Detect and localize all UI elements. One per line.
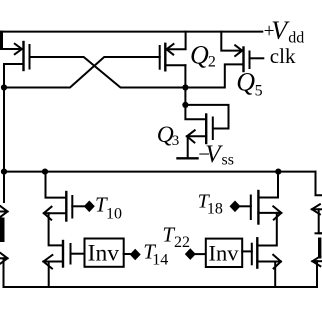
node mid T10 feed (45,171) [42,169,48,175]
node Y (185.4,104.9) [182,102,188,108]
channel [256,238,258,267]
svg-text:2: 2 [208,54,216,71]
wire cross-couple B (left node to Q2 gate) [4,57,160,88]
wire source drop [319,209,322,233]
Q3 gate bar [212,118,214,140]
diamond T18 [230,201,241,213]
wire down to bottom rail [3,258,5,287]
svg-text:5: 5 [255,82,263,99]
Q5 gate lead to clk [250,57,264,59]
wire source down to bottom rail [274,262,276,288]
M1 channel [22,42,24,70]
wire Inv to diamond [124,253,130,255]
wire node X vertical down to Q3 drain [185,65,205,119]
gate lead to Inv [71,253,85,255]
lead with arrow (points left) [312,208,322,210]
T18 arrow (points right, outward) [273,206,281,219]
Q5 gate bar [249,52,251,69]
node X (185.4,87.5) [182,84,188,90]
T18 channel [257,191,259,224]
M1 arrow (points right into channel) [15,44,22,54]
gate bar [251,244,253,265]
channel [62,241,64,267]
node left (4,87.5) [1,84,7,90]
Q5 drain lead from rail [221,32,242,51]
Q3 channel [205,115,207,144]
svg-text:3: 3 [172,133,180,149]
right edge clipped transistor column [312,172,322,287]
T18 gate lead [241,205,251,207]
transistor T18 [241,172,282,224]
second drain corner [316,232,322,234]
svg-text:Inv: Inv [88,241,120,267]
T10 drain feed [46,172,66,198]
svg-text:18: 18 [207,200,223,217]
transistor M1 (top-left, clipped) [0,42,30,88]
svg-text:10: 10 [106,205,122,222]
lead with arrow (points right) [0,211,8,213]
T18 gate bar [250,196,252,220]
Q5 source lead [186,64,243,87]
Q2 arrow (points left into channel) [167,44,174,55]
wire left vertical [3,88,5,203]
diamond T14 [130,249,141,261]
gate lead from Inv [242,250,252,252]
svg-text:Q: Q [190,40,209,69]
T10 arrow (points left, outward) [44,207,52,220]
inverter box right [206,239,242,267]
T10 source lead [44,212,67,214]
source lead [43,261,63,263]
T10 gate lead [72,205,84,207]
T18 source lead [258,212,281,214]
svg-text:14: 14 [152,251,168,268]
svg-text:22: 22 [174,234,190,251]
Q2 drain lead from rail [166,32,185,50]
source lead [257,261,281,263]
wire diamond to right Inv [196,253,206,255]
svg-text:clk: clk [270,44,296,68]
node mid T18 feed (279,171) [275,169,281,175]
svg-text:Q: Q [236,68,255,97]
wire cross-couple A (M1 gate to node X) [30,57,185,88]
gate bar [70,244,72,264]
wire mid rail corner down [316,172,322,196]
Q5 arrow (points right into channel) [235,45,242,56]
drain lead up to T18 source [257,213,277,246]
wire Vdd left edge drop (clipped thick bar) [0,31,3,50]
diamond T10 [84,201,95,213]
diamond T22 [185,248,196,260]
wire mid rail [4,171,316,173]
wire T10 source down to next drain [49,213,62,245]
M1 drain lead [0,48,23,50]
Q5 channel [242,48,244,72]
M1 gate bar [29,45,31,69]
wire +Vdd top rail [0,31,262,33]
arrow (points right, outward) [273,255,281,269]
transistor of T14 (lower-left with Inv) [43,241,84,287]
wire source down to bottom rail [48,262,50,288]
node mid-left (4,171) [1,169,7,175]
arrow (points left, outward) [43,255,52,269]
clipped channel bar [318,238,321,259]
inverter box left [85,239,124,267]
svg-text:Inv: Inv [209,241,240,266]
Q3 gate loop wire [185,105,228,129]
ground -Vss symbol [178,136,198,158]
lead with arrow (points left) [312,260,322,262]
transistor T10 [44,172,84,246]
lead with arrow (points right) [0,257,8,259]
transistor Q2 [160,32,186,71]
Q2 gate bar [159,46,161,69]
wire bottom rail [4,286,318,288]
left edge clipped transistor column [0,88,8,288]
Q2 source stub [165,64,185,66]
transistor of T22 (lower-right with Inv) [242,213,281,287]
M1 source lead [4,64,24,88]
T10 channel [65,192,67,221]
T10 gate bar [71,196,73,218]
svg-text:ss: ss [222,152,234,169]
wire down to bottom rail [316,261,318,287]
T18 drain feed [259,172,278,198]
Q3 source lead [187,135,206,137]
Q2 channel [164,44,166,71]
Q3 arrow (points left, outward) [187,130,195,142]
transistor Q5 [186,32,263,88]
clipped channel bar [0,218,5,243]
transistor Q3 (diode connected) [185,105,228,143]
